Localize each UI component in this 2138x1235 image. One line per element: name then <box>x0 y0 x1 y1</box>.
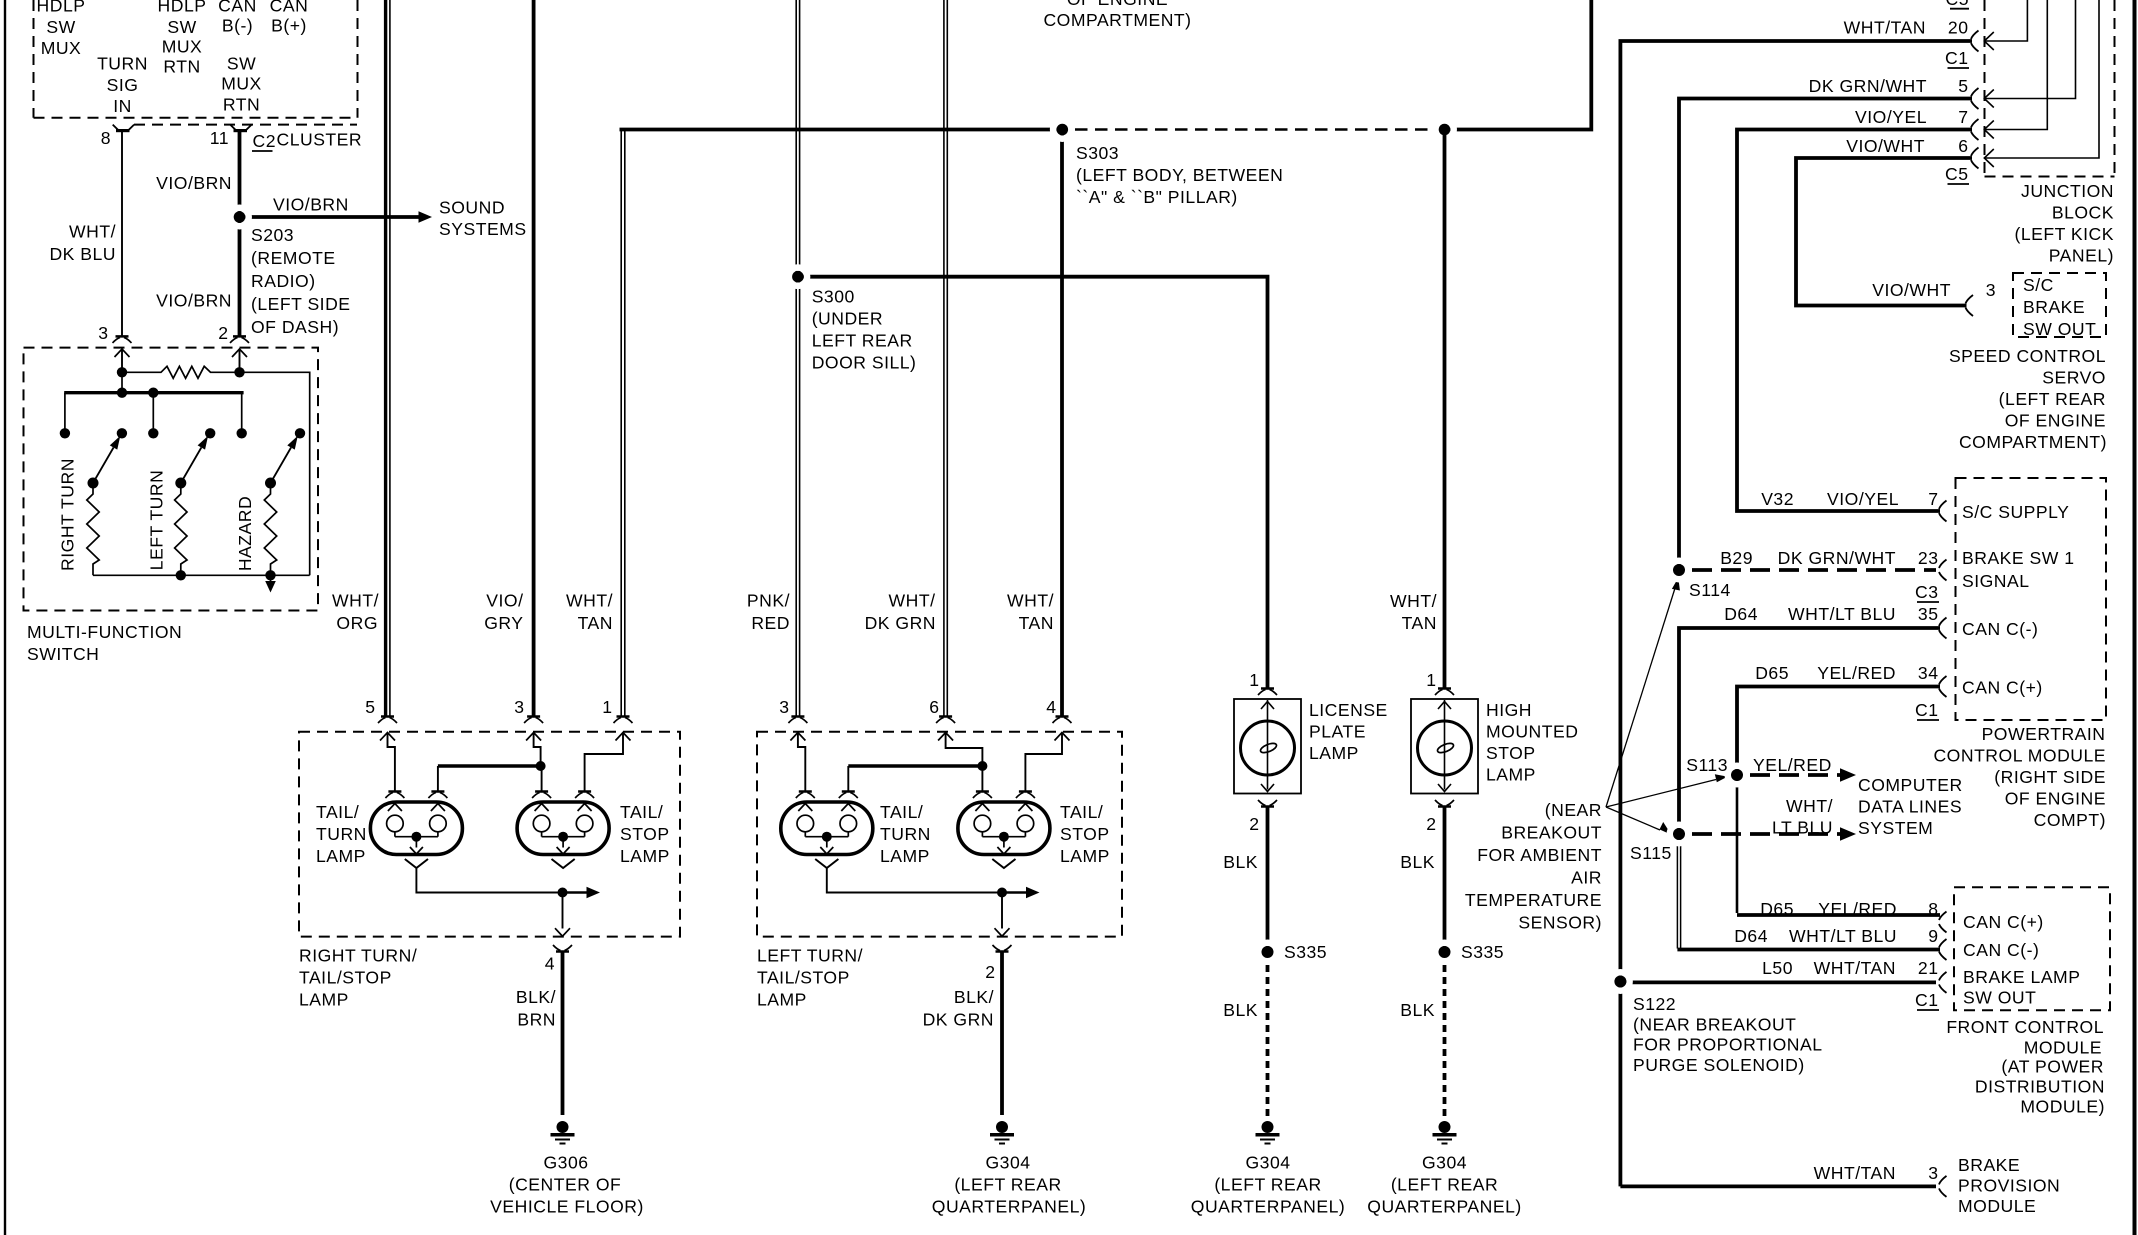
connector junction block pin 20 <box>1971 31 1979 52</box>
switch RIGHT TURN left contact <box>60 428 70 438</box>
svg-text:B(+): B(+) <box>271 16 307 36</box>
svg-text:MODULE: MODULE <box>2024 1038 2102 1058</box>
powertrain control module dashed box <box>1956 478 2107 720</box>
wire node to tail-stop bulb left post <box>981 767 983 792</box>
svg-text:PROVISION: PROVISION <box>1958 1176 2060 1196</box>
svg-text:(NEAR BREAKOUT: (NEAR BREAKOUT <box>1633 1015 1796 1035</box>
frame right border <box>2133 0 2137 1235</box>
svg-text:WHT/TAN: WHT/TAN <box>1814 1163 1896 1183</box>
connector license pin 2 <box>1261 805 1274 808</box>
svg-text:B29: B29 <box>1720 548 1753 568</box>
svg-text:SENSOR): SENSOR) <box>1518 913 1602 933</box>
svg-text:LT BLU: LT BLU <box>1772 818 1833 838</box>
svg-text:L50: L50 <box>1762 958 1793 978</box>
connector right lamp pin 3 <box>527 715 540 718</box>
svg-text:D65: D65 <box>1755 663 1789 683</box>
svg-text:OF ENGINE: OF ENGINE <box>2005 411 2106 431</box>
splice S335 HMSL <box>1435 943 1453 961</box>
svg-text:JUNCTION: JUNCTION <box>2021 181 2114 201</box>
wire BLK dashed HMSL to G304 <box>1443 965 1447 1119</box>
wire VIO/GRY from top to right lamp pin 3 <box>532 0 536 716</box>
svg-text:TAIL/STOP: TAIL/STOP <box>757 968 850 988</box>
connector FCM pin 21 <box>1939 972 1947 993</box>
bulb right TAIL/STOP LAMP <box>517 802 609 855</box>
svg-text:MULTI-FUNCTION: MULTI-FUNCTION <box>27 622 182 642</box>
wire WHT/TAN right lamp pin 1 riser <box>620 130 622 717</box>
svg-text:YEL/RED: YEL/RED <box>1817 663 1896 683</box>
svg-text:DK GRN: DK GRN <box>865 613 936 633</box>
connector PCM pin 23 <box>1939 560 1947 581</box>
wire BLK dashed license to G304 <box>1266 965 1270 1119</box>
wire BLK license to S335 <box>1266 807 1270 949</box>
svg-text:CLUSTER: CLUSTER <box>277 130 363 150</box>
node S303 right <box>1435 120 1453 138</box>
node feed bus at pin3 drop <box>117 388 127 398</box>
connector MFS pin 2 <box>233 335 246 338</box>
wire DK GRN/WHT bus from junction block pin 5 <box>1679 99 1972 568</box>
svg-text:PANEL): PANEL) <box>2049 246 2114 266</box>
svg-text:FOR PROPORTIONAL: FOR PROPORTIONAL <box>1633 1035 1823 1055</box>
svg-text:(AT POWER: (AT POWER <box>2001 1057 2104 1077</box>
svg-text:35: 35 <box>1918 604 1939 624</box>
svg-text:S113: S113 <box>1686 755 1728 775</box>
svg-text:S/C: S/C <box>2023 275 2054 295</box>
svg-text:8: 8 <box>1928 899 1938 919</box>
wire WHT/LT BLU dashed to computer data lines <box>1692 832 1840 836</box>
svg-text:(LEFT REAR: (LEFT REAR <box>1391 1175 1498 1195</box>
svg-text:STOP: STOP <box>1060 824 1110 844</box>
resistor LEFT TURN <box>175 488 187 575</box>
svg-text:DISTRIBUTION: DISTRIBUTION <box>1975 1077 2105 1097</box>
arrow note to S115 <box>1606 807 1660 830</box>
svg-text:QUARTERPANEL): QUARTERPANEL) <box>1191 1197 1345 1217</box>
svg-text:B(-): B(-) <box>222 16 253 36</box>
wire drop to left-turn contact <box>152 393 154 429</box>
svg-text:PURGE SOLENOID): PURGE SOLENOID) <box>1633 1055 1805 1075</box>
svg-text:S122: S122 <box>1633 994 1676 1014</box>
arrow left lamp to stop circuit <box>1002 891 1031 893</box>
svg-text:7: 7 <box>1958 107 1968 127</box>
wire L50 WHT/TAN to FCM pin 21 <box>1620 981 1936 985</box>
svg-text:MUX: MUX <box>221 74 262 94</box>
svg-text:VIO/WHT: VIO/WHT <box>1872 280 1951 300</box>
svg-text:3: 3 <box>779 697 789 717</box>
svg-text:VEHICLE FLOOR): VEHICLE FLOOR) <box>490 1197 644 1217</box>
wire WHT/TAN S303 to HMSL <box>1443 135 1447 688</box>
connector brake provision module pin 3 <box>1939 1176 1947 1197</box>
svg-text:VIO/YEL: VIO/YEL <box>1827 489 1899 509</box>
wire pin3 to tail-turn bulb <box>798 733 805 792</box>
connector left lamp pin 4 <box>1056 715 1069 718</box>
junction block dashed box <box>1985 0 2115 177</box>
svg-text:C2: C2 <box>253 131 277 151</box>
svg-text:YEL/RED: YEL/RED <box>1818 899 1897 919</box>
svg-text:HDLP: HDLP <box>37 0 86 16</box>
wire WHT/DK GRN from top to left lamp pin 6 <box>943 0 945 716</box>
svg-text:DK GRN: DK GRN <box>923 1010 994 1030</box>
node left lamp ground junction <box>997 888 1007 898</box>
svg-text:BLK: BLK <box>1400 1000 1435 1020</box>
wire D64 WHT/LT BLU PCM pin 35 <box>1679 628 1940 830</box>
node MFS resistor right <box>234 367 244 377</box>
wire pin1 to tail-stop bulb right post <box>585 733 623 792</box>
svg-text:SPEED CONTROL: SPEED CONTROL <box>1949 346 2106 366</box>
wire PNK/RED S300 to license plate lamp <box>798 277 1268 688</box>
wire BLK HMSL to S335 <box>1443 807 1447 949</box>
svg-text:(LEFT BODY, BETWEEN: (LEFT BODY, BETWEEN <box>1076 165 1283 185</box>
svg-text:PNK/: PNK/ <box>747 591 790 611</box>
svg-text:(LEFT REAR: (LEFT REAR <box>1999 389 2106 409</box>
wire WHT/TAN left lamp pin 4 riser <box>1060 130 1064 717</box>
svg-text:TEMPERATURE: TEMPERATURE <box>1465 890 1602 910</box>
svg-text:AIR: AIR <box>1571 868 1602 888</box>
splice S115 <box>1670 825 1688 843</box>
svg-text:CAN C(-): CAN C(-) <box>1962 619 2038 639</box>
svg-text:BLK/: BLK/ <box>954 987 994 1007</box>
svg-text:BRAKE: BRAKE <box>1958 1155 2020 1175</box>
svg-text:(NEAR: (NEAR <box>1545 800 1602 820</box>
svg-text:3: 3 <box>514 697 524 717</box>
wire JB pin5 internal <box>1984 0 2075 99</box>
svg-text:LAMP: LAMP <box>299 990 349 1010</box>
ground G304 left lamp <box>996 1121 1008 1133</box>
svg-text:MOUNTED: MOUNTED <box>1486 722 1578 742</box>
svg-text:FRONT CONTROL: FRONT CONTROL <box>1946 1017 2104 1037</box>
svg-text:VIO/YEL: VIO/YEL <box>1855 107 1927 127</box>
svg-text:5: 5 <box>365 697 375 717</box>
connector FCM pin 9 <box>1939 939 1947 960</box>
left turn tail stop lamp dashed box <box>757 732 1122 937</box>
wire drop to right-turn contact <box>64 393 66 429</box>
svg-text:MUX: MUX <box>41 38 82 58</box>
svg-text:TURN: TURN <box>880 824 931 844</box>
right turn tail stop lamp dashed box <box>299 732 680 937</box>
switch RIGHT TURN right contact <box>117 428 127 438</box>
svg-text:RIGHT TURN: RIGHT TURN <box>58 458 78 571</box>
svg-text:5: 5 <box>1958 76 1968 96</box>
svg-text:1: 1 <box>1249 670 1259 690</box>
wire WHT/TAN to brake provision module <box>1620 1185 1936 1189</box>
svg-text:LAMP: LAMP <box>1060 846 1110 866</box>
wire BLK/DK GRN to G304 <box>1000 952 1004 1116</box>
front control module dashed box <box>1954 887 2110 1010</box>
svg-text:D64: D64 <box>1724 604 1758 624</box>
svg-text:WHT/: WHT/ <box>69 222 116 242</box>
svg-text:3: 3 <box>1986 280 1996 300</box>
svg-text:LAMP: LAMP <box>1309 743 1359 763</box>
svg-text:2: 2 <box>1426 814 1436 834</box>
wire pin3 to node <box>534 733 541 765</box>
wire bulb returns to ground node <box>416 868 562 893</box>
wire YEL/RED dashed to computer data lines <box>1750 773 1840 777</box>
svg-text:C1: C1 <box>1915 700 1939 720</box>
svg-text:LEFT TURN: LEFT TURN <box>147 470 167 571</box>
connector HMSL pin 2 <box>1438 805 1451 808</box>
svg-text:SW: SW <box>167 17 196 37</box>
svg-text:WHT/: WHT/ <box>889 591 936 611</box>
svg-text:QUARTERPANEL): QUARTERPANEL) <box>932 1197 1086 1217</box>
svg-text:PLATE: PLATE <box>1309 722 1366 742</box>
wire WHT/TAN bus from junction block pin 20 <box>1620 41 1972 1186</box>
splice S335 license <box>1258 943 1276 961</box>
wire pin5 to tail-turn bulb <box>388 733 395 792</box>
switch HAZARD left contact <box>237 428 247 438</box>
svg-text:WHT/: WHT/ <box>1786 796 1833 816</box>
node feed bus left-turn drop <box>148 388 158 398</box>
svg-text:WHT/: WHT/ <box>1390 591 1437 611</box>
splice S113 <box>1728 766 1746 784</box>
wire node to feed bus <box>121 372 123 392</box>
connector PCM pin 7 <box>1939 501 1947 522</box>
svg-text:CAN C(-): CAN C(-) <box>1963 940 2039 960</box>
svg-text:(RIGHT SIDE: (RIGHT SIDE <box>1994 767 2106 787</box>
svg-text:STOP: STOP <box>1486 743 1536 763</box>
svg-text:WHT/LT BLU: WHT/LT BLU <box>1788 604 1896 624</box>
svg-text:D64: D64 <box>1734 926 1768 946</box>
switch RIGHT TURN arm <box>93 447 114 483</box>
svg-text:SWITCH: SWITCH <box>27 644 99 664</box>
lamp LICENSE PLATE LAMP <box>1234 699 1301 794</box>
svg-text:WHT/: WHT/ <box>332 591 379 611</box>
svg-text:RTN: RTN <box>223 95 260 115</box>
node bottom bus hazard <box>265 570 275 580</box>
svg-text:C1: C1 <box>1915 990 1939 1010</box>
connector HMSL pin 1 <box>1438 687 1451 690</box>
svg-text:CAN: CAN <box>270 0 309 16</box>
svg-text:21: 21 <box>1918 958 1939 978</box>
switch LEFT TURN right contact <box>205 428 215 438</box>
svg-text:BRN: BRN <box>517 1010 556 1030</box>
wire to junction block riser <box>1445 0 1592 130</box>
svg-text:G304: G304 <box>985 1153 1030 1173</box>
svg-text:C5: C5 <box>1945 164 1969 184</box>
svg-text:QUARTERPANEL): QUARTERPANEL) <box>1367 1197 1521 1217</box>
svg-text:TAIL/: TAIL/ <box>1060 802 1103 822</box>
svg-text:HIGH: HIGH <box>1486 700 1532 720</box>
svg-text:DOOR SILL): DOOR SILL) <box>812 353 917 373</box>
svg-text:GRY: GRY <box>484 613 523 633</box>
wire S303 dashed to splice <box>1075 128 1434 130</box>
wire PNK/RED from top to left lamp pin 3 <box>795 0 797 716</box>
svg-text:MODULE: MODULE <box>1958 1196 2036 1216</box>
bulb left TAIL/STOP LAMP <box>958 802 1050 855</box>
wire D65 YEL/RED PCM pin 34 <box>1737 687 1940 772</box>
resistor RIGHT TURN <box>87 488 99 575</box>
wire JB pin20 internal <box>1984 0 2027 41</box>
svg-text:C1: C1 <box>1945 48 1969 68</box>
svg-text:S115: S115 <box>1630 843 1672 863</box>
svg-text:OF ENGINE: OF ENGINE <box>1067 0 1168 9</box>
svg-text:CAN C(+): CAN C(+) <box>1962 678 2043 698</box>
svg-text:OF DASH): OF DASH) <box>251 317 339 337</box>
svg-text:S300: S300 <box>812 287 855 307</box>
wire VIO/YEL bus from junction block pin 7 <box>1737 130 1972 512</box>
connector left lamp pin 6 <box>939 715 952 718</box>
switch HAZARD pivot <box>265 478 276 489</box>
svg-text:(LEFT REAR: (LEFT REAR <box>954 1175 1061 1195</box>
switch HAZARD right contact <box>295 428 305 438</box>
wire MFS bottom bus <box>93 574 310 576</box>
svg-text:7: 7 <box>1928 489 1938 509</box>
svg-text:YEL/RED: YEL/RED <box>1753 755 1832 775</box>
wire ground node to pin 2 <box>1001 893 1003 929</box>
wire BLK/BRN to G306 <box>561 952 565 1116</box>
bulb left TAIL/TURN LAMP <box>781 802 873 855</box>
splice S203 <box>230 208 248 226</box>
node left lamp feed <box>977 761 987 771</box>
wire node to tail-turn bulb right post <box>848 764 982 767</box>
splice S122 <box>1611 972 1629 990</box>
svg-text:VIO/BRN: VIO/BRN <box>156 291 232 311</box>
svg-text:SYSTEM: SYSTEM <box>1858 818 1933 838</box>
instrument cluster dashed box <box>34 0 358 118</box>
svg-text:DATA LINES: DATA LINES <box>1858 797 1962 817</box>
wire resistor row to hazard branch <box>240 372 310 575</box>
svg-text:RTN: RTN <box>163 57 200 77</box>
svg-text:G306: G306 <box>543 1153 588 1173</box>
svg-text:C3: C3 <box>1915 582 1939 602</box>
svg-text:SW OUT: SW OUT <box>1963 988 2036 1008</box>
switch LEFT TURN pivot <box>175 478 186 489</box>
node right lamp ground junction <box>558 888 568 898</box>
wire pin4 to tail-stop bulb right post <box>1025 733 1062 792</box>
svg-text:LEFT REAR: LEFT REAR <box>812 331 913 351</box>
splice S300 <box>789 268 807 286</box>
svg-text:3: 3 <box>1928 1163 1938 1183</box>
svg-text:BRAKE LAMP: BRAKE LAMP <box>1963 967 2080 987</box>
svg-text:SOUND: SOUND <box>439 198 505 218</box>
bulb right TAIL/TURN LAMP <box>370 802 462 855</box>
connector left lamp pin 3 <box>791 715 804 718</box>
svg-text:WHT/TAN: WHT/TAN <box>1814 958 1896 978</box>
ground G306 <box>557 1121 569 1133</box>
node bottom bus left-turn <box>176 570 186 580</box>
wire WHT/ORG from top to right lamp pin 5 <box>384 0 387 716</box>
svg-text:BLK/: BLK/ <box>516 987 556 1007</box>
svg-text:TURN: TURN <box>97 54 148 74</box>
node MFS resistor left <box>117 367 127 377</box>
svg-text:6: 6 <box>929 697 939 717</box>
svg-text:6: 6 <box>1958 136 1968 156</box>
svg-text:WHT/: WHT/ <box>566 591 613 611</box>
svg-text:(LEFT SIDE: (LEFT SIDE <box>251 294 351 314</box>
wire B29 DK GRN/WHT dashed to PCM pin 23 <box>1692 568 1936 572</box>
svg-text:SW: SW <box>46 17 75 37</box>
svg-text:RIGHT TURN/: RIGHT TURN/ <box>299 946 417 966</box>
connector PCM pin 34 <box>1939 676 1947 697</box>
connector right lamp pin 5 <box>381 715 394 718</box>
svg-text:CONTROL MODULE: CONTROL MODULE <box>1933 746 2106 766</box>
svg-text:S114: S114 <box>1689 580 1731 600</box>
arrow note to S114 <box>1606 585 1676 807</box>
svg-text:HDLP: HDLP <box>158 0 207 16</box>
svg-text:DK BLU: DK BLU <box>49 244 116 264</box>
switch LEFT TURN left contact <box>148 428 158 438</box>
svg-text:S335: S335 <box>1461 942 1504 962</box>
svg-text:23: 23 <box>1918 548 1939 568</box>
switch LEFT TURN arm <box>181 447 202 483</box>
frame left border <box>4 0 6 1235</box>
svg-text:DK GRN/WHT: DK GRN/WHT <box>1809 76 1927 96</box>
connector right lamp pin 4 <box>556 950 569 953</box>
svg-text:2: 2 <box>1249 814 1259 834</box>
svg-text:S203: S203 <box>251 225 294 245</box>
connector license plate lamp pin 1 <box>1261 687 1274 690</box>
svg-text:LAMP: LAMP <box>316 846 366 866</box>
svg-text:VIO/WHT: VIO/WHT <box>1846 136 1925 156</box>
svg-text:STOP: STOP <box>620 824 670 844</box>
connector right lamp pin 1 <box>617 715 630 718</box>
svg-text:1: 1 <box>1426 670 1436 690</box>
svg-text:TAIL/STOP: TAIL/STOP <box>299 968 392 988</box>
svg-text:WHT/: WHT/ <box>1007 591 1054 611</box>
svg-text:BLK: BLK <box>1400 852 1435 872</box>
svg-text:(LEFT KICK: (LEFT KICK <box>2014 224 2114 244</box>
svg-text:34: 34 <box>1918 663 1939 683</box>
svg-text:POWERTRAIN: POWERTRAIN <box>1982 724 2106 744</box>
svg-text:D65: D65 <box>1760 899 1794 919</box>
svg-text:MODULE): MODULE) <box>2020 1097 2105 1117</box>
wire D65 S113 to FCM pin 8 <box>1736 779 1739 913</box>
connector MFS pin 3 <box>116 335 129 338</box>
lamp HIGH MOUNTED STOP LAMP <box>1411 699 1478 794</box>
arrow MFS ground continuation <box>270 575 272 583</box>
svg-text:3: 3 <box>98 323 108 343</box>
connector PCM pin 35 <box>1939 618 1947 639</box>
ground G304 HMSL <box>1439 1121 1451 1133</box>
wire drop to hazard contact <box>241 393 243 429</box>
resistor MFS between pin3 and pin2 <box>122 366 240 378</box>
svg-text:SIGNAL: SIGNAL <box>1962 571 2030 591</box>
node right lamp feed <box>536 761 546 771</box>
svg-text:VIO/BRN: VIO/BRN <box>156 173 232 193</box>
splice S303 <box>1053 120 1071 138</box>
speed control servo S/C BRAKE SW OUT dashed box <box>2013 273 2106 337</box>
wire JB pin6 internal <box>1984 0 2099 158</box>
svg-text:VIO/: VIO/ <box>486 591 523 611</box>
wire MFS pin3 to node <box>121 350 123 373</box>
svg-text:DK GRN/WHT: DK GRN/WHT <box>1778 548 1896 568</box>
svg-text:BRAKE SW 1: BRAKE SW 1 <box>1962 548 2075 568</box>
svg-text:LAMP: LAMP <box>757 990 807 1010</box>
svg-text:C5: C5 <box>1946 0 1970 9</box>
svg-text:(CENTER OF: (CENTER OF <box>509 1175 622 1195</box>
switch HAZARD arm <box>271 447 292 483</box>
svg-text:4: 4 <box>1046 697 1056 717</box>
svg-text:SIG: SIG <box>107 75 139 95</box>
svg-text:LAMP: LAMP <box>1486 765 1536 785</box>
ground G304 license <box>1262 1121 1274 1133</box>
svg-text:SW OUT: SW OUT <box>2023 319 2096 339</box>
svg-text:BRAKE: BRAKE <box>2023 297 2085 317</box>
svg-text:BLK: BLK <box>1223 1000 1258 1020</box>
wire brake feed to S303 <box>620 128 1063 132</box>
wire JB pin7 internal <box>1984 0 2047 130</box>
svg-text:IN: IN <box>113 96 132 116</box>
svg-text:SW: SW <box>227 54 256 74</box>
svg-text:S303: S303 <box>1076 143 1119 163</box>
svg-text:S335: S335 <box>1284 942 1327 962</box>
wire pin6 to node <box>946 733 983 765</box>
arrow note to S113 <box>1606 780 1716 808</box>
svg-text:V32: V32 <box>1761 489 1794 509</box>
svg-text:TAIL/: TAIL/ <box>620 802 663 822</box>
svg-text:2: 2 <box>218 323 228 343</box>
svg-text:(UNDER: (UNDER <box>812 309 883 329</box>
wire VIO/BRN cluster pin 11 to MFS pin 2 <box>238 132 242 336</box>
svg-text:8: 8 <box>101 128 111 148</box>
svg-text:TAIL/: TAIL/ <box>316 802 359 822</box>
